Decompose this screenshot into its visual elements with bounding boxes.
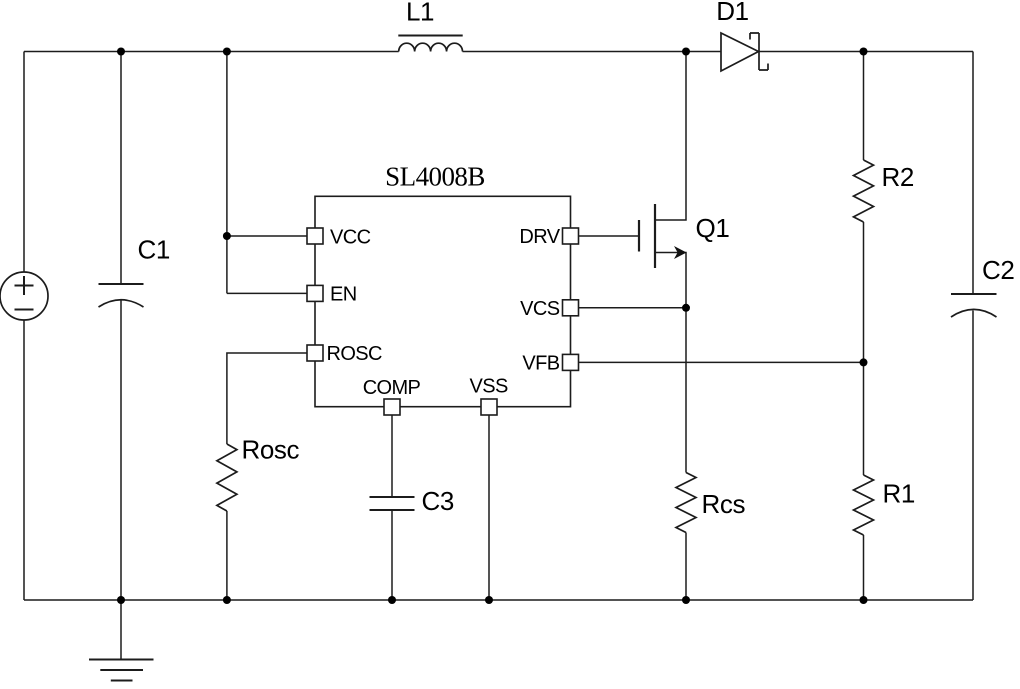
node gnd C1 (117, 596, 125, 604)
pin VFB square (563, 354, 579, 370)
capacitor C3 (370, 497, 415, 510)
node top VCC (223, 48, 231, 56)
pin VSS square (481, 399, 497, 415)
resistor Rosc (217, 444, 237, 511)
svg-text:SL4008B: SL4008B (385, 162, 485, 192)
resistor R2 (854, 160, 874, 222)
inductor L1 (398, 36, 462, 52)
wire R1 top lead (863, 362, 865, 475)
svg-text:VSS: VSS (469, 376, 507, 398)
svg-text:C1: C1 (138, 235, 170, 265)
wire EN (227, 292, 307, 294)
node top R2 (860, 48, 868, 56)
svg-text:Rcs: Rcs (702, 489, 746, 519)
wire Rosc to ground rail (226, 511, 228, 600)
pin EN square (307, 285, 323, 301)
node VCC wire (223, 232, 231, 240)
node gnd VSS (485, 596, 493, 604)
wire VFB net (579, 361, 864, 363)
pin DRV square (563, 228, 579, 244)
node gnd Rcs (682, 596, 690, 604)
svg-text:D1: D1 (716, 0, 748, 26)
svg-text:C2: C2 (982, 255, 1014, 285)
pin VCS square (563, 300, 579, 316)
resistor Rcs (676, 473, 696, 533)
wire R1 bottom lead (863, 535, 865, 600)
node VCS source (682, 304, 690, 312)
capacitor C2 (951, 294, 997, 317)
wire Q1 source to Rcs (685, 308, 687, 473)
wire R2 bottom lead (863, 222, 865, 362)
svg-text:R1: R1 (883, 479, 915, 509)
IC U1 box (315, 196, 571, 406)
svg-text:Rosc: Rosc (242, 435, 300, 465)
node top drain (682, 48, 690, 56)
wire VSS to ground rail (488, 415, 490, 600)
wire R2 top lead (863, 52, 865, 161)
svg-text:ROSC: ROSC (327, 343, 383, 365)
voltage source V1 (0, 272, 48, 320)
wire right rail (972, 52, 974, 295)
svg-text:Q1: Q1 (696, 213, 730, 243)
wire ROSC (227, 353, 307, 444)
wire VCC net (226, 52, 228, 294)
svg-text:L1: L1 (406, 0, 434, 27)
wire VCS (579, 307, 687, 309)
resistor R1 (854, 475, 874, 535)
wire COMP to C3 (391, 415, 393, 497)
svg-text:R2: R2 (882, 162, 914, 192)
svg-text:VFB: VFB (522, 352, 559, 374)
capacitor C1 (99, 52, 144, 601)
svg-text:DRV: DRV (519, 226, 560, 248)
diode D1 (schottky) (721, 33, 768, 71)
wire Rcs to ground rail (685, 533, 687, 601)
node gnd Rosc (223, 596, 231, 604)
svg-text:C3: C3 (422, 486, 454, 516)
wire C3 to ground rail (391, 510, 393, 600)
wire DRV to gate (579, 235, 640, 237)
svg-text:EN: EN (330, 284, 357, 306)
ground (89, 600, 154, 681)
pin ROSC square (307, 345, 323, 361)
svg-text:COMP: COMP (363, 377, 421, 399)
node gnd C3 (388, 596, 396, 604)
pin COMP square (384, 399, 400, 415)
node gnd R1 (860, 596, 868, 604)
wire left rail (23, 52, 25, 273)
svg-text:VCC: VCC (330, 227, 371, 249)
pin VCC square (307, 228, 579, 415)
node top C1 (117, 48, 125, 56)
svg-text:VCS: VCS (520, 298, 560, 320)
wire bottom rail (24, 599, 973, 601)
transistor Q1 (639, 52, 687, 308)
node VFB divider (860, 358, 868, 366)
wire top rail (24, 51, 399, 53)
